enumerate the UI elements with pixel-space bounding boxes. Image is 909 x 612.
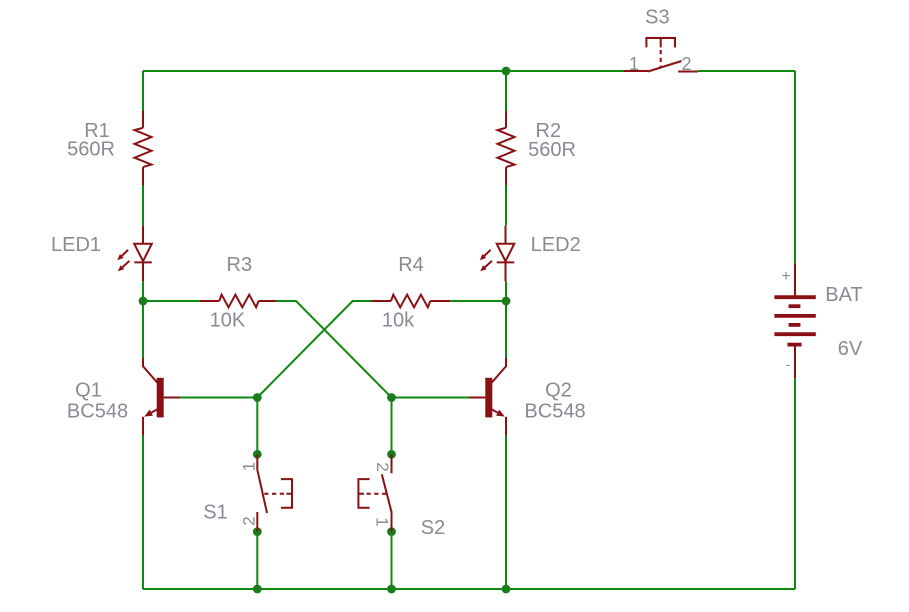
svg-text:1: 1 xyxy=(373,517,392,526)
svg-text:2: 2 xyxy=(239,516,258,525)
svg-text:S1: S1 xyxy=(203,501,227,523)
svg-text:560R: 560R xyxy=(67,138,115,160)
svg-text:-: - xyxy=(786,356,791,372)
svg-text:BC548: BC548 xyxy=(67,400,128,422)
svg-text:LED1: LED1 xyxy=(51,234,101,256)
svg-text:Q2: Q2 xyxy=(545,379,572,401)
svg-text:S2: S2 xyxy=(421,517,445,539)
svg-text:+: + xyxy=(781,268,790,285)
svg-text:1: 1 xyxy=(629,54,639,74)
svg-text:1: 1 xyxy=(240,462,259,471)
svg-text:LED2: LED2 xyxy=(531,234,581,256)
svg-text:R3: R3 xyxy=(227,254,253,276)
svg-text:10k: 10k xyxy=(382,309,415,331)
svg-text:R4: R4 xyxy=(398,254,424,276)
svg-text:BC548: BC548 xyxy=(524,400,585,422)
svg-text:560R: 560R xyxy=(528,139,576,161)
svg-text:6V: 6V xyxy=(838,338,863,360)
svg-text:2: 2 xyxy=(681,54,691,74)
svg-text:S3: S3 xyxy=(645,7,669,29)
svg-text:10K: 10K xyxy=(210,309,246,331)
svg-text:Q1: Q1 xyxy=(75,379,102,401)
svg-text:BAT: BAT xyxy=(825,284,862,306)
svg-text:2: 2 xyxy=(373,462,392,471)
